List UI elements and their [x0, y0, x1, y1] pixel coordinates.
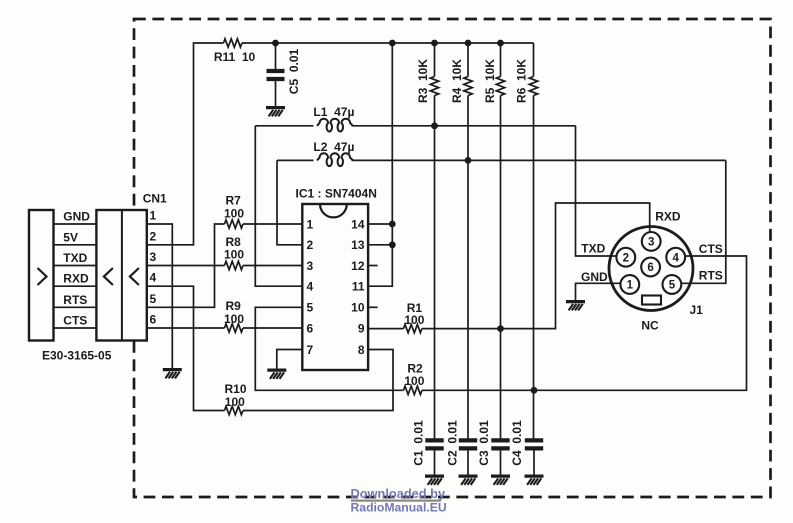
svg-text:R4 10K: R4 10K — [450, 59, 464, 103]
svg-text:TXD: TXD — [63, 251, 87, 265]
wire CN1 pin 1 to ground — [147, 224, 173, 368]
chevron in cable box — [38, 268, 47, 285]
svg-text:C2 0.01: C2 0.01 — [445, 420, 459, 466]
svg-text:E30-3165-05: E30-3165-05 — [42, 348, 112, 362]
wire R1 to J1 RXD pin 3 — [422, 203, 650, 329]
inductor L2 — [317, 153, 353, 166]
wire IC pin 12 stub — [368, 265, 378, 267]
wire R3 upper lead — [434, 43, 436, 77]
connector J1 outline — [609, 227, 693, 311]
wire riser L2 to IC pin 2 — [277, 160, 302, 244]
wire 5V bus right of R11 — [242, 42, 534, 44]
ground for J1 pin 1 — [566, 302, 585, 311]
wire R3 lower lead down to capacitor — [434, 96, 436, 439]
ground for C5 — [266, 108, 285, 117]
svg-text:C1 0.01: C1 0.01 — [412, 420, 426, 466]
svg-text:RXD: RXD — [655, 210, 681, 224]
junction node R1-row/R5 — [497, 325, 504, 332]
svg-text:100: 100 — [224, 207, 244, 221]
wire bus riser to IC pins 14/13/11 — [368, 43, 392, 286]
svg-text:RadioManual.EU: RadioManual.EU — [351, 500, 447, 514]
wire RTS riser L2 to J1 pin 5 — [681, 160, 726, 283]
svg-text:2: 2 — [307, 238, 314, 252]
svg-text:11: 11 — [352, 280, 365, 294]
svg-text:C3 0.01: C3 0.01 — [477, 420, 491, 466]
op-amp IC1 SN7404N body — [302, 204, 368, 370]
svg-text:CN1: CN1 — [143, 192, 167, 206]
junction node bus/R3 — [431, 40, 438, 47]
svg-text:12: 12 — [351, 259, 365, 273]
svg-text:10: 10 — [351, 301, 365, 315]
watermark underline — [351, 499, 441, 501]
resistor R6 — [529, 77, 537, 96]
resistor R4 — [464, 77, 472, 96]
svg-text:R3 10K: R3 10K — [416, 59, 430, 103]
resistor R7 — [225, 220, 244, 228]
connector J1 pin 1 — [620, 275, 639, 294]
junction node pin14 — [389, 221, 396, 228]
wire R9 to IC pin 6 — [243, 327, 302, 329]
junction node L2/R4 — [465, 157, 472, 164]
wire IC pin 10 stub — [368, 306, 378, 308]
connector CN1 body — [96, 210, 146, 341]
svg-text:J1: J1 — [690, 303, 704, 317]
resistor R11 — [224, 39, 243, 47]
svg-text:Downloaded by: Downloaded by — [351, 486, 446, 501]
connector J1 pin 2 — [616, 248, 635, 267]
svg-text:R7: R7 — [226, 194, 242, 208]
wire IC pin 13 lead — [368, 244, 392, 246]
svg-text:IC1 : SN7404N: IC1 : SN7404N — [296, 187, 377, 201]
connector J1 keyway — [642, 296, 661, 305]
wire IC pin 5 down to R2 row — [255, 307, 403, 390]
svg-text:3: 3 — [150, 250, 157, 264]
svg-text:RTS: RTS — [63, 293, 87, 307]
svg-text:4: 4 — [672, 252, 679, 264]
wire IC pin 9 to R1 — [368, 328, 403, 330]
svg-text:9: 9 — [358, 321, 365, 335]
resistor R1 — [404, 324, 423, 332]
svg-text:5: 5 — [669, 280, 676, 292]
svg-text:6: 6 — [307, 321, 314, 335]
wire L1 left lead from IC pin 4 riser — [255, 125, 313, 127]
svg-text:100: 100 — [224, 248, 244, 262]
capacitor C1 — [425, 438, 443, 442]
wire riser L1 to IC pin 4 — [255, 126, 302, 286]
connector J1 pin 5 — [663, 275, 682, 294]
chevron in CN1 right half — [130, 268, 139, 285]
chevron in CN1 left half — [104, 268, 113, 285]
svg-text:1: 1 — [627, 280, 634, 292]
wire R4 lower lead down to capacitor — [467, 96, 469, 439]
junction node bus/R5 — [497, 40, 504, 47]
wire R6 lower lead down to capacitor — [533, 96, 535, 439]
inductor L1 — [317, 119, 353, 132]
wire R7 to IC pin 1 — [243, 223, 302, 225]
connector J1 pin 6 — [641, 258, 660, 277]
svg-text:6: 6 — [647, 262, 653, 274]
connector J1 pin 3 — [642, 232, 661, 251]
svg-text:1: 1 — [307, 217, 314, 231]
capacitor C5 — [275, 43, 277, 69]
resistor R10 — [225, 406, 244, 414]
svg-text:GND: GND — [63, 210, 90, 224]
svg-text:L1 47µ: L1 47µ — [313, 105, 354, 119]
svg-text:5: 5 — [150, 292, 157, 306]
svg-text:14: 14 — [351, 217, 365, 231]
svg-text:6: 6 — [150, 313, 157, 327]
resistor R5 — [496, 77, 504, 96]
junction node R2-row/C4 — [531, 387, 538, 394]
wire GND label row — [54, 223, 97, 225]
wire CTS label row — [54, 327, 97, 329]
svg-text:5V: 5V — [63, 230, 78, 244]
wire R2 to J1 CTS pin 4 — [422, 256, 747, 390]
wire TXD riser to J1 pin 2 — [576, 126, 617, 256]
svg-text:R10: R10 — [224, 382, 246, 396]
connector CN1 cable box — [29, 210, 54, 341]
resistor R3 — [430, 77, 438, 96]
wire L2 to RTS riser — [352, 159, 726, 161]
svg-text:1: 1 — [150, 209, 157, 223]
wire L1 to TXD riser — [352, 125, 576, 127]
svg-text:CTS: CTS — [699, 242, 723, 256]
junction node bus/IC-supply — [389, 40, 396, 47]
svg-text:100: 100 — [404, 313, 424, 327]
wire IC pin 7 to ground — [277, 350, 303, 369]
svg-text:GND: GND — [581, 270, 608, 284]
svg-text:RTS: RTS — [699, 269, 723, 283]
svg-text:8: 8 — [358, 343, 365, 357]
ground for C4 — [525, 476, 544, 485]
junction node bus/R4 — [465, 40, 472, 47]
wire CN1 pin 3 to R8 — [147, 265, 225, 267]
svg-text:13: 13 — [351, 238, 365, 252]
wire CN1 pin 6 to R9 — [147, 327, 225, 329]
svg-text:TXD: TXD — [581, 241, 605, 255]
wire RXD label row — [54, 285, 97, 287]
wire TXD label row — [54, 265, 97, 267]
wire RTS label row — [54, 306, 97, 308]
svg-text:R11 10: R11 10 — [214, 50, 256, 64]
svg-text:100: 100 — [224, 312, 244, 326]
wire R8 to IC pin 3 — [243, 265, 302, 267]
junction node pin13 — [389, 241, 396, 248]
label CN1 — [137, 189, 169, 204]
wire J1 pin 1 to ground — [576, 283, 621, 300]
capacitor C3 — [491, 438, 509, 442]
svg-text:L2 47µ: L2 47µ — [313, 140, 354, 154]
svg-text:2: 2 — [150, 229, 157, 243]
wire 5V label row — [54, 244, 97, 246]
resistor R9 — [225, 324, 244, 332]
svg-text:5: 5 — [307, 301, 314, 315]
svg-text:4: 4 — [150, 271, 157, 285]
ground for IC pin 7 — [267, 370, 286, 379]
svg-text:CTS: CTS — [63, 314, 87, 328]
svg-text:R6 10K: R6 10K — [515, 59, 529, 103]
ground for C1 — [425, 476, 444, 485]
svg-text:2: 2 — [623, 252, 629, 264]
junction node L1/R3 — [431, 122, 438, 129]
dashed enclosure border — [134, 19, 771, 497]
svg-text:3: 3 — [307, 259, 314, 273]
wire IC pin 14 lead — [368, 223, 392, 225]
svg-text:C5 0.01: C5 0.01 — [287, 48, 301, 94]
svg-text:RXD: RXD — [63, 272, 89, 286]
svg-text:4: 4 — [307, 280, 314, 294]
svg-text:100: 100 — [225, 395, 245, 409]
wire CN1 pin 4 down to R10 row — [147, 286, 225, 410]
ground for C2 — [459, 476, 478, 485]
wire R5 lower lead down to capacitor — [500, 96, 502, 439]
wire L2 left lead — [277, 159, 314, 161]
svg-text:C4 0.01: C4 0.01 — [510, 420, 524, 466]
ground for CN1 pin 1 — [163, 370, 182, 379]
wire CN1 pin 5 to R7 — [147, 224, 225, 307]
svg-text:NC: NC — [641, 319, 659, 333]
wire R5 upper lead — [500, 43, 502, 77]
wire 5V from CN1 pin 2 up and right to R11 — [147, 43, 224, 245]
resistor R2 — [404, 386, 423, 394]
resistor R8 — [225, 261, 244, 269]
wire R4 upper lead — [467, 43, 469, 77]
svg-text:3: 3 — [648, 237, 654, 249]
wire R10 to IC pin 8 — [243, 350, 393, 411]
svg-text:7: 7 — [307, 343, 314, 357]
svg-text:100: 100 — [404, 374, 424, 388]
wire R6 upper lead — [533, 43, 535, 77]
svg-text:R5 10K: R5 10K — [483, 59, 497, 103]
capacitor C4 — [525, 438, 543, 442]
capacitor C2 — [459, 438, 477, 442]
connector J1 pin 4 — [666, 248, 685, 267]
junction node C5/bus — [272, 40, 279, 47]
ground for C3 — [491, 476, 510, 485]
